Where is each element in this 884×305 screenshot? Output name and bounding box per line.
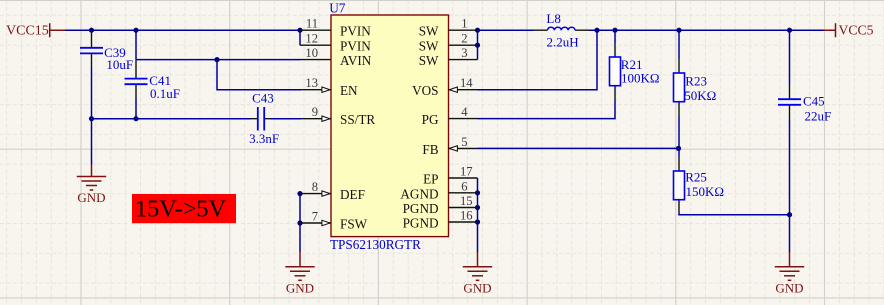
- wire EP-AGND-PGND tie: [477, 178, 479, 252]
- svg-text:L8: L8: [546, 11, 560, 26]
- pin 11 PVIN: [300, 29, 331, 31]
- svg-text:11: 11: [306, 17, 318, 31]
- pin 5 FB: [449, 146, 478, 151]
- pin 1 SW: [449, 29, 478, 31]
- junction SW pin1: [475, 28, 480, 33]
- svg-text:15: 15: [460, 194, 473, 208]
- inductor L8: [548, 27, 576, 30]
- pin 14 VOS: [449, 87, 478, 92]
- note box 15V->5V: [132, 194, 236, 223]
- junction VOS tap: [594, 28, 599, 33]
- junction AVIN / EN branch: [214, 57, 219, 62]
- ground (DEF/FSW): [285, 252, 314, 280]
- junction top rail / pin11: [297, 28, 302, 33]
- svg-text:C45: C45: [803, 94, 825, 109]
- junction FSW: [297, 220, 302, 225]
- wire EN branch: [217, 60, 301, 90]
- junction AGND: [475, 190, 480, 195]
- svg-text:50KΩ: 50KΩ: [684, 88, 716, 103]
- svg-text:8: 8: [312, 180, 318, 194]
- svg-text:C43: C43: [252, 91, 274, 106]
- power port VCC5: [822, 23, 874, 38]
- junction SW pin2: [475, 43, 480, 48]
- wire VOS feedback: [478, 30, 598, 89]
- svg-text:VCC15: VCC15: [6, 24, 49, 39]
- wire C45 bottom drop: [789, 121, 791, 253]
- svg-text:DEF: DEF: [340, 187, 365, 202]
- pin 4 PG: [449, 118, 478, 120]
- wire R21 bottom to PG: [478, 101, 616, 119]
- junction GND rail / C45: [787, 212, 792, 217]
- pin 16 PGND: [449, 221, 478, 223]
- pin 9 SS/TR: [301, 116, 331, 121]
- svg-text:AGND: AGND: [400, 186, 438, 201]
- resistor R23: [674, 73, 685, 102]
- capacitor C41: [125, 79, 148, 85]
- IC U7 TPS62130RGTR body: [331, 15, 449, 237]
- svg-text:7: 7: [312, 210, 318, 224]
- svg-text:FB: FB: [422, 142, 438, 157]
- capacitor C43 pins: [251, 118, 271, 120]
- junction R21 tap: [612, 28, 617, 33]
- svg-text:2: 2: [461, 32, 467, 46]
- resistor R21: [610, 57, 621, 86]
- resistor R23 pins: [678, 59, 680, 117]
- wire C39 bottom to rail: [91, 68, 93, 119]
- ground (output/C45): [775, 252, 804, 280]
- svg-text:TPS62130RGTR: TPS62130RGTR: [330, 237, 421, 252]
- wire VCC15 to PVIN (top rail): [65, 29, 300, 31]
- junction top rail / C41: [133, 28, 138, 33]
- power port VCC15: [6, 23, 65, 38]
- wire SW tie: [477, 30, 479, 59]
- pin 13 EN: [301, 87, 331, 92]
- wire R21 top lead: [614, 30, 616, 43]
- wire AVIN rail: [136, 59, 301, 61]
- svg-text:SW: SW: [419, 53, 439, 68]
- svg-text:EP: EP: [423, 172, 438, 187]
- wire SS/TR left segment: [92, 118, 251, 120]
- junction C45 tap: [787, 28, 792, 33]
- svg-text:1: 1: [461, 17, 467, 31]
- wire pin11 to pin12 drop: [299, 30, 301, 45]
- svg-text:R23: R23: [685, 73, 707, 88]
- svg-text:PVIN: PVIN: [340, 24, 371, 39]
- svg-text:EN: EN: [340, 83, 358, 98]
- wire C41 bottom to rail: [135, 99, 137, 119]
- inductor L8 pins: [534, 29, 590, 31]
- svg-text:6: 6: [461, 179, 467, 193]
- pin 12 PVIN: [300, 44, 331, 46]
- svg-text:100KΩ: 100KΩ: [621, 71, 660, 86]
- capacitor C39: [80, 48, 103, 54]
- wire GND drop left: [91, 119, 93, 165]
- ground (left, C39/C41): [77, 165, 106, 191]
- junction FB node: [676, 146, 681, 151]
- resistor R25 pins: [678, 157, 680, 213]
- svg-text:R25: R25: [685, 169, 707, 184]
- svg-text:12: 12: [305, 32, 318, 46]
- svg-text:U7: U7: [329, 0, 346, 15]
- svg-text:150KΩ: 150KΩ: [686, 184, 725, 199]
- svg-text:10uF: 10uF: [106, 57, 133, 72]
- svg-text:PVIN: PVIN: [340, 39, 371, 54]
- svg-text:4: 4: [461, 105, 468, 119]
- junction bottom rail / C41: [133, 116, 138, 121]
- pin 2 SW: [449, 44, 478, 46]
- svg-text:VOS: VOS: [412, 83, 438, 98]
- resistor R25: [674, 171, 685, 200]
- pin 6 AGND: [449, 192, 478, 194]
- wire SS/TR right segment: [271, 118, 302, 120]
- junction bottom rail / C39: [89, 116, 94, 121]
- junction R23 tap: [676, 28, 681, 33]
- svg-text:AVIN: AVIN: [340, 53, 372, 68]
- junction DEF: [297, 191, 302, 196]
- svg-text:16: 16: [460, 209, 473, 223]
- capacitor C45 pins: [789, 85, 791, 121]
- wire R25 bottom to GND rail: [679, 213, 790, 215]
- svg-text:SW: SW: [419, 24, 439, 39]
- svg-text:9: 9: [312, 105, 318, 119]
- junction PGND15: [475, 205, 480, 210]
- wire DEF-FSW tie: [299, 194, 301, 252]
- svg-text:PG: PG: [422, 112, 439, 127]
- wire C45 top lead: [789, 30, 791, 84]
- svg-text:14: 14: [460, 76, 473, 90]
- wire C41 top drop: [135, 30, 137, 59]
- svg-text:GND: GND: [775, 280, 803, 295]
- svg-text:PGND: PGND: [403, 216, 439, 231]
- svg-text:5: 5: [461, 135, 467, 149]
- capacitor C41 pins: [135, 60, 137, 99]
- svg-text:PGND: PGND: [403, 201, 439, 216]
- svg-text:17: 17: [460, 165, 473, 179]
- svg-text:GND: GND: [463, 280, 491, 295]
- svg-text:0.1uF: 0.1uF: [150, 86, 180, 101]
- wire R23 top lead: [678, 30, 680, 58]
- pin 8 DEF: [300, 191, 331, 196]
- capacitor C39 pins: [91, 30, 93, 67]
- svg-text:22uF: 22uF: [805, 109, 832, 124]
- wire SW to L8: [478, 29, 534, 31]
- svg-text:SS/TR: SS/TR: [340, 112, 375, 127]
- resistor R21 pins: [614, 43, 616, 101]
- svg-text:SW: SW: [419, 39, 439, 54]
- ground (EP/AGND/PGND): [463, 252, 492, 280]
- svg-text:13: 13: [305, 76, 318, 90]
- svg-text:GND: GND: [77, 190, 105, 205]
- pin 15 PGND: [449, 207, 478, 209]
- svg-text:3: 3: [461, 46, 467, 60]
- wire R23 bottom lead: [678, 117, 680, 149]
- pin 3 SW: [449, 59, 478, 61]
- capacitor C45: [778, 99, 801, 105]
- svg-text:GND: GND: [286, 280, 314, 295]
- junction PGND16: [475, 219, 480, 224]
- svg-text:2.2uH: 2.2uH: [547, 34, 579, 49]
- junction top rail / C39: [89, 28, 94, 33]
- wire L8 to VCC5: [590, 29, 824, 31]
- pin 7 FSW: [300, 220, 331, 225]
- svg-text:VCC5: VCC5: [839, 23, 874, 38]
- svg-text:15V->5V: 15V->5V: [135, 196, 227, 223]
- svg-text:FSW: FSW: [340, 217, 368, 232]
- capacitor C43: [258, 107, 264, 131]
- wire FB rail: [478, 147, 679, 149]
- pin 17 EP: [449, 177, 478, 179]
- svg-text:10: 10: [305, 46, 318, 60]
- pin 10 AVIN: [301, 59, 331, 61]
- wire R25 top lead: [678, 148, 680, 156]
- svg-text:3.3nF: 3.3nF: [249, 131, 279, 146]
